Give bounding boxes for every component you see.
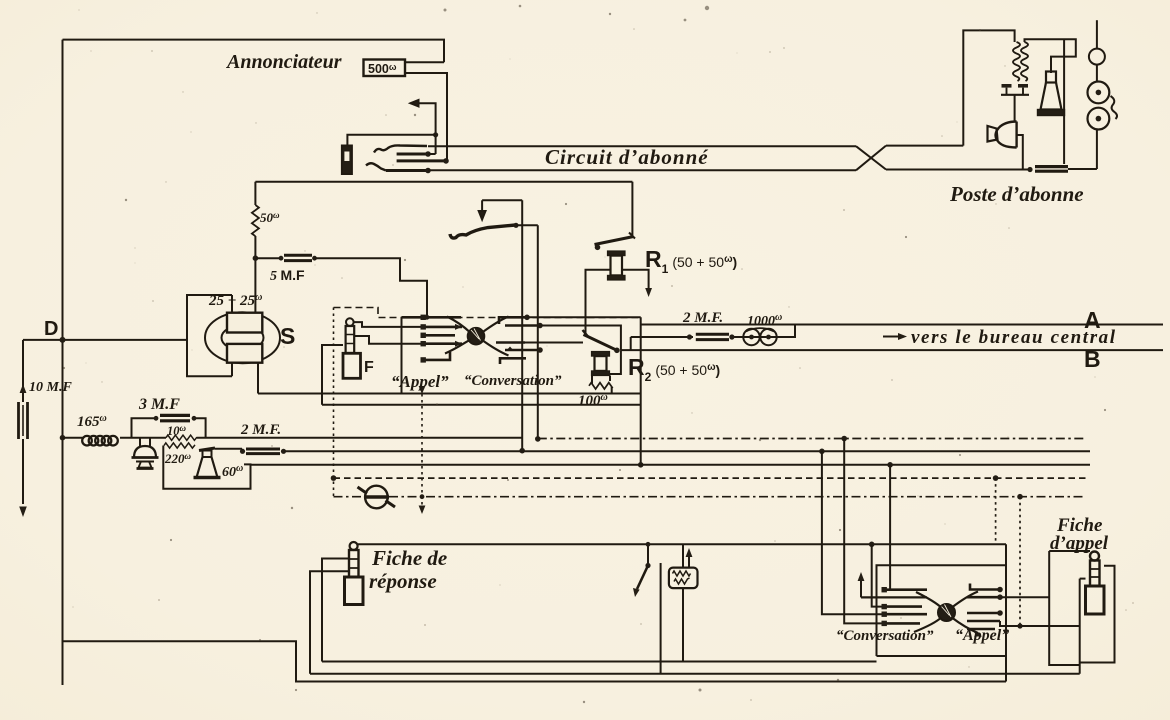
transformer S inner ring <box>222 325 264 350</box>
wire: L1 resistor to key verticals <box>197 437 522 439</box>
key left contact row5 <box>423 352 450 360</box>
svg-text:5 M.F: 5 M.F <box>270 267 305 284</box>
key right contact row1 and wire to box corner <box>499 317 527 324</box>
annunciator 500-ohm box <box>364 60 406 77</box>
wire: dotted riser L4 down <box>995 478 997 544</box>
wire: riser L2 to bottom key row4 <box>822 451 884 614</box>
svg-text:2 M.F.: 2 M.F. <box>240 422 281 438</box>
svg-text:2 M.F.: 2 M.F. <box>682 310 723 326</box>
capacitor 10 M.F <box>17 402 20 439</box>
resistor 10-ohm <box>166 435 197 440</box>
wire: hook line down to R1 armature <box>631 182 633 237</box>
bottom key left row1 <box>884 588 927 591</box>
svg-text:Fiche de: Fiche de <box>371 546 447 570</box>
wire: bus L3 solid <box>251 464 1091 466</box>
node: L1 junction at x844 <box>841 436 847 442</box>
key right contact row2 and wire to line B <box>505 324 540 327</box>
wire: 2MF 1000-ohm branch <box>631 336 693 338</box>
resistor 100-ohm under R2 <box>592 376 610 384</box>
bottom key right row4 and wire right <box>967 620 1000 623</box>
contact bar 2 <box>397 159 445 162</box>
key arm upper-left <box>447 317 471 334</box>
bottom key right row3 <box>967 612 1000 615</box>
key arm lower-left <box>445 340 471 354</box>
wire: bottom border <box>63 641 1007 681</box>
wire: bottom rail 1 <box>322 661 877 663</box>
contact bar 1 <box>397 153 427 156</box>
wire: coil right winding to transmitter loop <box>1025 39 1076 73</box>
wire: key unit bottom line 2 <box>322 404 641 406</box>
contact spring upper <box>374 145 427 152</box>
plug: fiche de reponse stem <box>349 550 359 577</box>
wire: dotted riser L5 down <box>1019 497 1021 626</box>
wire: R1 coil right with arrow <box>622 270 649 288</box>
jack F stem <box>346 326 355 353</box>
wire: bus L4 dashed <box>334 477 1090 479</box>
wire: reponse tip long line <box>358 543 1006 545</box>
bottom key left row4 <box>884 613 927 616</box>
receiver (operator earpiece) leads <box>140 438 150 446</box>
bottom key left row5 <box>884 622 920 625</box>
svg-text:S: S <box>280 323 295 349</box>
relay R2 armature <box>584 335 617 351</box>
wire: long vertical hook to bus L2 <box>521 200 523 450</box>
wire: riser L3 to bottom key row1 <box>889 465 891 590</box>
capacitor C4 (subscriber set) <box>1035 165 1068 168</box>
wire: bus L2 solid <box>284 450 1091 452</box>
node D junction <box>60 337 66 343</box>
wire: R1 coil to R2 contact <box>586 270 611 336</box>
jack F tip <box>346 318 354 326</box>
dashed outline of key unit (top) <box>334 308 639 318</box>
wire: key box right edge <box>1005 544 1007 681</box>
wire: fiche d'appel left vertical <box>1049 551 1080 665</box>
svg-text:D: D <box>44 318 58 340</box>
node: junction start of dashed L1 <box>535 436 541 442</box>
node: L4 dashed junction left <box>331 475 337 481</box>
wire: D to 10MF capacitor <box>22 340 24 402</box>
svg-text:F: F <box>364 359 374 376</box>
svg-text:“Appel”: “Appel” <box>955 627 1009 644</box>
bell: top circle <box>1089 49 1105 65</box>
transformer S top winding <box>227 313 262 333</box>
induction coil winding left <box>1013 42 1020 81</box>
svg-text:B: B <box>1084 346 1101 372</box>
wire: bus L5 dash-dot <box>334 496 1086 498</box>
node: capacitor junction <box>1027 167 1032 172</box>
svg-text:Poste d’abonne: Poste d’abonne <box>949 182 1084 206</box>
transmitter (operator, flask) <box>199 448 215 451</box>
wire: transformer left loop <box>187 295 232 376</box>
dashed vertical with arrows below Appel <box>421 394 423 505</box>
node: junction on jack top wire <box>433 132 438 137</box>
wire: appel plug circuit right box <box>1080 566 1115 663</box>
switch hook lever <box>450 225 516 238</box>
receiver (operator earpiece) <box>134 446 156 458</box>
key hub (upper) <box>468 328 485 345</box>
wire: subscriber set left side <box>963 30 1014 145</box>
wire: capacitor down with earth arrow <box>22 439 24 504</box>
contact spring lower <box>366 163 386 170</box>
bottom key right row2 and wire to fiche <box>967 596 1000 599</box>
wire: appel vertical mid <box>1080 578 1086 580</box>
svg-text:d’appel: d’appel <box>1050 533 1109 554</box>
node: junctions on reponse line <box>869 542 875 548</box>
svg-text:réponse: réponse <box>369 569 437 593</box>
arrow: hook arm arrow <box>481 200 483 212</box>
plug: fiche d'appel tip <box>1090 552 1099 561</box>
wire: L1 coil to resistor <box>120 437 166 439</box>
plug: fiche d'appel body <box>1086 586 1105 614</box>
wire: left border vertical through D <box>62 40 64 685</box>
wire: long vertical lever to bus L1 <box>537 225 539 439</box>
bottom key hub <box>938 604 955 621</box>
arrow: vers le bureau central <box>883 336 901 338</box>
wire: upper conductor right of cross to set <box>886 145 963 147</box>
transmitter T2 (flask) <box>1046 72 1056 83</box>
wire: hook L-wire to key vertical <box>482 199 522 201</box>
hook contacts <box>1001 94 1029 96</box>
wire: box right vertical to bus L3 <box>640 317 642 465</box>
coil 1000-ohm (twin windings) <box>743 329 759 345</box>
relay R2 contact tick <box>583 330 589 337</box>
resistor 50-ohm <box>252 205 259 236</box>
relay R1 armature <box>595 237 634 245</box>
node: junctions right side dashed <box>993 475 999 481</box>
wire: reponse lead 3 <box>310 571 349 674</box>
wire: receiver to lower conductor <box>1017 135 1023 170</box>
transformer S bottom winding <box>227 344 262 363</box>
induction coil winding right <box>1021 42 1028 81</box>
bell gong upper <box>1088 82 1110 104</box>
wire: subscriber line upper conductor <box>428 145 856 147</box>
key right contact row3 and wire to R2 contact <box>496 341 525 344</box>
svg-text:25 + 25ω: 25 + 25ω <box>208 292 262 309</box>
capacitor 5 M.F <box>255 257 282 259</box>
wire: F tip to key row2 <box>354 322 423 327</box>
key arm upper-right <box>481 317 508 334</box>
node: L3 junction at x890 <box>887 462 893 468</box>
dashed outline of key unit (left vertical) <box>333 308 335 497</box>
wire: lower conductor right of cross <box>886 169 1030 171</box>
wire: battery box around transmitter <box>163 446 250 489</box>
bell: line stub <box>1096 20 1098 48</box>
wire: hook bar down to receiver <box>1014 95 1016 122</box>
plug: fiche de reponse tip <box>350 542 358 550</box>
capacitor 3 M.F bypass <box>132 418 159 437</box>
wire: lever right vertical <box>660 563 662 674</box>
node: 5MF junction <box>253 255 259 261</box>
wire: L1 start <box>63 437 84 439</box>
transformer S outer ring <box>205 312 280 363</box>
wire: annunciator lower lead to jack contact <box>405 73 447 161</box>
wire: to appel plug tip <box>1049 550 1090 552</box>
wire: F box left side <box>322 345 343 405</box>
svg-text:Annonciateur: Annonciateur <box>225 51 342 73</box>
svg-text:“Appel”: “Appel” <box>391 372 449 391</box>
bell clapper <box>1111 96 1118 119</box>
plug: fiche de reponse body <box>345 577 364 605</box>
arrow: annunciator armature arrow <box>411 103 436 154</box>
coil box (supervisory relay) <box>669 568 698 589</box>
wire: key unit bottom line 1 <box>258 393 641 395</box>
wire: 5MF to key row1 <box>315 258 428 317</box>
key right contact row4 <box>505 349 540 352</box>
wire: riser L1 to bottom key row5 <box>844 439 884 624</box>
receiver E2 (earpiece) <box>1015 122 1017 148</box>
wire: F stem to key row4 <box>354 336 423 344</box>
wire: annunciator upper lead <box>405 61 444 63</box>
wire: subscriber line lower conductor <box>428 169 856 171</box>
capacitor 2 M.F (line branch) <box>696 333 729 336</box>
wire: coil box top lead with arrow <box>682 544 684 567</box>
bottom key box <box>877 565 1007 656</box>
wire: bus L1 dash-dot right section <box>538 438 1086 440</box>
wire: lever pivot to key vertical <box>516 224 538 226</box>
wire: bottom rail 2 <box>310 673 1080 675</box>
svg-text:Circuit d’abonné: Circuit d’abonné <box>545 145 709 169</box>
wire: top border line from D vertical to annunciator <box>63 40 445 63</box>
capacitor 2 M.F (operator line) <box>246 448 280 451</box>
node: L2 junction at x822 <box>819 449 825 455</box>
arrow: up arrow above capacitor <box>20 384 27 393</box>
bottom key left row3 <box>884 605 922 608</box>
resistor 220-ohm <box>164 443 195 448</box>
contact bar 3 <box>386 169 427 172</box>
wire: line A to bureau central <box>641 324 1163 326</box>
key left contact row1 <box>402 316 462 319</box>
node: junction on bus L2 <box>519 448 525 454</box>
svg-text:“Conversation”: “Conversation” <box>836 628 934 644</box>
svg-text:10 M.F: 10 M.F <box>29 380 72 395</box>
wire: L2 from transmitter to capacitor <box>215 448 242 450</box>
wire: loop to bottom winding <box>231 363 233 377</box>
inductor 165-ohm coil <box>82 436 92 446</box>
meter symbol on L5 <box>365 486 388 509</box>
switch lever (cord circuit) <box>647 544 649 565</box>
wire: reponse line to key left rows <box>872 544 884 606</box>
plug: fiche d'appel stem <box>1090 561 1100 587</box>
relay R2 coil <box>592 352 610 357</box>
wire: loop to top winding <box>231 295 233 313</box>
bottom key left row2 with up arrow <box>861 596 927 598</box>
wire: line B to R2 coil <box>610 350 621 374</box>
wire: key row1 left vertical <box>401 317 403 393</box>
wire: bottom winding lead down <box>257 363 259 394</box>
wire: reponse lead 2 <box>322 559 349 662</box>
wire: capacitor to bell <box>1068 168 1097 170</box>
wire: line transposition cross <box>856 146 886 169</box>
node: junction of L1 on D vertical <box>60 435 66 441</box>
relay R1 coil <box>608 251 626 256</box>
key right contact row5 <box>500 358 526 364</box>
wire: set right side vertical <box>1063 39 1065 164</box>
node: 5MF wire junction on row1 <box>425 315 430 320</box>
svg-text:3 M.F: 3 M.F <box>138 396 180 413</box>
jack J1 body (annunciator jack) <box>342 146 352 175</box>
key left contact row3 <box>423 334 455 337</box>
bottom key right row1 <box>970 584 1000 590</box>
bell gong lower <box>1088 108 1110 130</box>
svg-text:“Conversation”: “Conversation” <box>464 373 562 389</box>
wire: bell to capacitor <box>1096 130 1098 170</box>
svg-text:vers le bureau central: vers le bureau central <box>911 327 1117 348</box>
wire: jack frame to annunciator <box>347 135 436 146</box>
wire: D node to transformer loop <box>23 339 187 341</box>
wire: coil box bottom lead <box>682 588 684 661</box>
wire: hook circuit line <box>255 181 632 183</box>
wire: 50-ohm branch vertical <box>254 182 256 205</box>
bottom key arms <box>916 592 941 608</box>
wire: line B to bureau central <box>621 349 1163 351</box>
key left contact row4 <box>423 342 462 345</box>
jack F body <box>343 353 361 378</box>
key left contact row2 <box>423 326 462 329</box>
bottom key right row5 <box>967 628 995 631</box>
key arm lower-right <box>481 340 508 356</box>
